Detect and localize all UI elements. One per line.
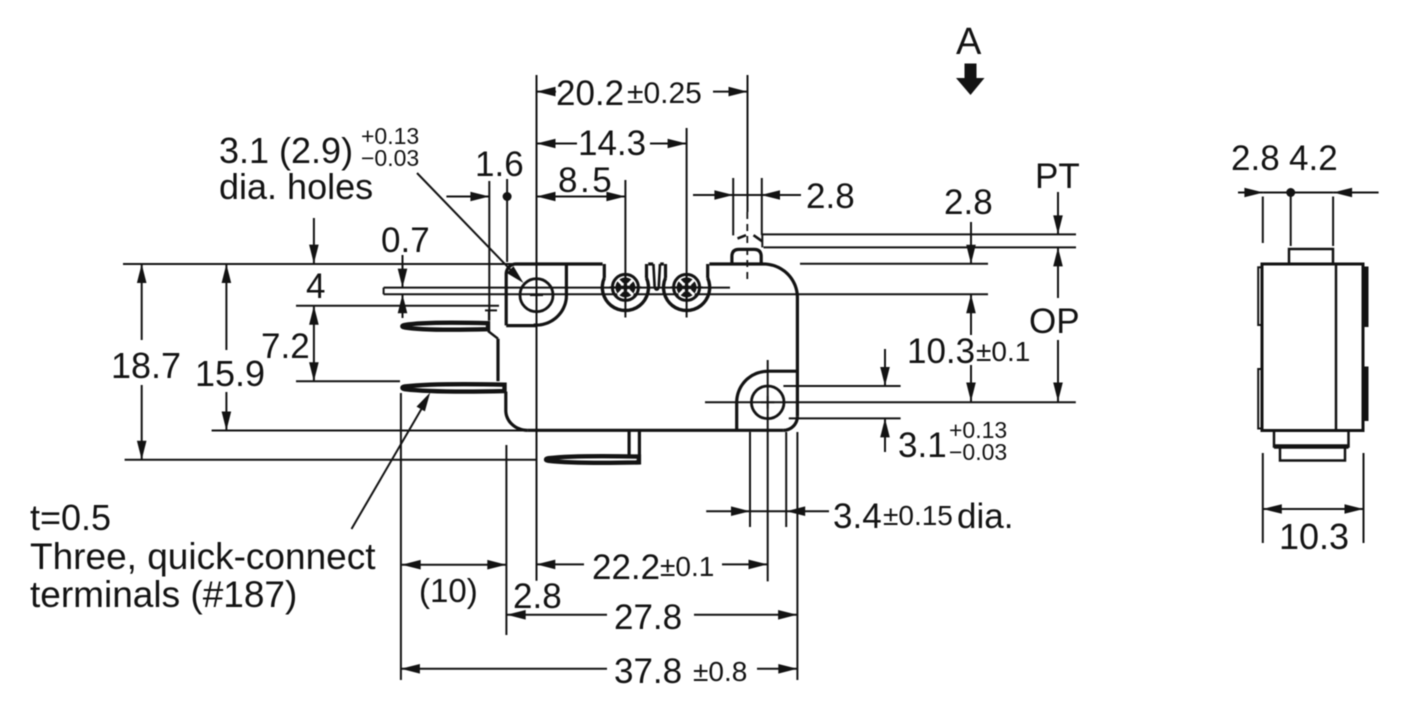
svg-text:±0.25: ±0.25 (627, 77, 702, 110)
svg-text:2.8: 2.8 (513, 577, 562, 616)
svg-text:14.3: 14.3 (578, 124, 646, 163)
svg-text:0.7: 0.7 (381, 221, 430, 260)
svg-text:20.2: 20.2 (556, 74, 624, 113)
svg-text:±0.8: ±0.8 (693, 656, 747, 687)
svg-text:4: 4 (306, 267, 325, 306)
svg-text:2.8: 2.8 (1231, 139, 1280, 178)
svg-text:t=0.5: t=0.5 (30, 497, 111, 538)
svg-text:2.8: 2.8 (806, 177, 855, 216)
svg-text:2.8: 2.8 (944, 183, 993, 222)
svg-text:PT: PT (1035, 157, 1080, 196)
svg-text:8.5: 8.5 (558, 161, 614, 200)
svg-text:OP: OP (1029, 302, 1080, 341)
svg-text:27.8: 27.8 (614, 598, 682, 637)
svg-text:15.9: 15.9 (195, 353, 265, 394)
svg-text:10.3: 10.3 (907, 332, 975, 371)
svg-text:±0.1: ±0.1 (660, 551, 714, 582)
svg-text:37.8: 37.8 (614, 652, 682, 691)
svg-text:3.1 (2.9): 3.1 (2.9) (219, 130, 353, 171)
svg-text:18.7: 18.7 (111, 345, 181, 386)
svg-text:±0.1: ±0.1 (976, 336, 1030, 367)
svg-text:22.2: 22.2 (592, 548, 660, 587)
svg-text:terminals (#187): terminals (#187) (30, 574, 297, 615)
svg-text:±0.15: ±0.15 (883, 500, 953, 531)
svg-text:4.2: 4.2 (1289, 139, 1338, 178)
svg-text:dia.: dia. (957, 497, 1013, 536)
svg-text:10.3: 10.3 (1279, 516, 1349, 557)
svg-text:1.6: 1.6 (475, 145, 524, 184)
svg-text:dia. holes: dia. holes (219, 166, 373, 207)
svg-text:7.2: 7.2 (261, 327, 310, 366)
svg-text:Three, quick-connect: Three, quick-connect (30, 536, 376, 577)
svg-text:−0.03: −0.03 (949, 439, 1007, 465)
svg-text:(10): (10) (419, 572, 478, 609)
svg-text:3.1: 3.1 (898, 426, 947, 465)
svg-text:A: A (956, 21, 982, 63)
svg-text:3.4: 3.4 (833, 497, 882, 536)
